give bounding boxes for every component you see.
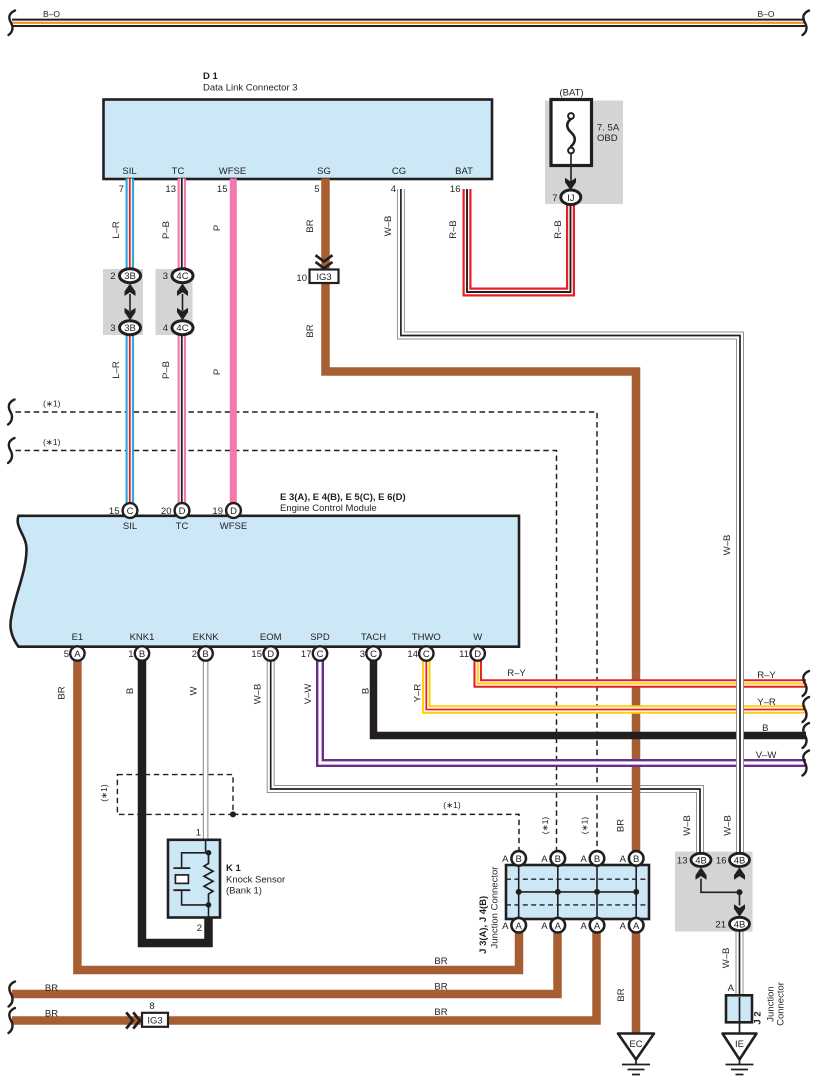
svg-text:D 1: D 1 [203, 71, 219, 82]
wire EOM W-B from ECM to 4B pin 13 [271, 660, 700, 857]
fuse element bottom circle [568, 148, 574, 154]
wire L-R from D1 SIL to 3B pin 2 [126, 179, 135, 278]
svg-text:W: W [473, 632, 482, 643]
svg-text:IJ: IJ [567, 193, 575, 204]
wire L-R from 3B pin 3 to ECM SIL [126, 327, 135, 505]
svg-text:C: C [317, 649, 324, 660]
svg-text:Y–R: Y–R [757, 697, 776, 708]
svg-text:C: C [127, 506, 134, 517]
svg-text:A: A [580, 854, 587, 865]
connector IG3 box bottom chevron [126, 1012, 140, 1028]
junction dot knock bottom [206, 902, 212, 908]
svg-text:A: A [620, 854, 627, 865]
junction 4B arrow up pin 16 [734, 867, 745, 880]
junction 4B arrow down pin 21 [734, 904, 745, 917]
svg-text:4B: 4B [695, 855, 707, 866]
svg-text:SG: SG [317, 166, 331, 177]
svg-text:(BAT): (BAT) [559, 88, 583, 99]
svg-text:20: 20 [161, 506, 172, 517]
svg-text:C: C [370, 649, 377, 660]
svg-text:BR: BR [434, 982, 447, 993]
svg-text:W: W [188, 686, 199, 695]
junction J3 inner dashed line upper [506, 878, 649, 880]
svg-text:7: 7 [552, 193, 557, 204]
svg-text:R–Y: R–Y [757, 670, 776, 681]
wire dashed (*1) line 2 [16, 451, 557, 854]
svg-text:13: 13 [677, 856, 688, 867]
wire continuation squiggle top-right [803, 11, 810, 36]
svg-text:E1: E1 [72, 632, 84, 643]
svg-text:4: 4 [391, 184, 396, 195]
junction 3B arrow up [125, 284, 136, 297]
svg-text:P: P [212, 369, 223, 375]
connector IG3 box on SG wire [310, 270, 339, 284]
junction 4C arrow up [177, 284, 188, 297]
junction J3 internal bus line [519, 891, 637, 893]
ECM top pin circle C SIL [123, 503, 138, 518]
connector J3 pin A3 circle [590, 918, 605, 933]
svg-text:10: 10 [296, 273, 307, 284]
svg-text:BR: BR [616, 988, 627, 1001]
svg-text:(Bank 1): (Bank 1) [226, 886, 262, 897]
svg-text:B: B [555, 854, 561, 865]
svg-text:B: B [516, 854, 522, 865]
capacitor element box [175, 875, 188, 884]
svg-text:J 3(A), J 4(B): J 3(A), J 4(B) [478, 896, 489, 954]
fuse 7.5A OBD box [551, 100, 592, 166]
svg-text:OBD: OBD [597, 133, 618, 144]
svg-text:P–B: P–B [161, 221, 172, 239]
svg-text:B: B [139, 649, 145, 660]
svg-text:A: A [633, 921, 640, 932]
svg-text:A: A [74, 649, 81, 660]
svg-text:E 3(A), E 4(B), E 5(C), E 6(D): E 3(A), E 4(B), E 5(C), E 6(D) [280, 492, 406, 503]
junction dot 4 [633, 889, 639, 895]
connector 4C oval pin 4 [172, 321, 193, 335]
wire BR from IG3 down right to J4 pin B4 [326, 282, 637, 856]
svg-text:3: 3 [360, 649, 365, 660]
wire continuation squiggle R-Y [803, 671, 810, 696]
svg-text:WFSE: WFSE [219, 166, 246, 177]
fuse block shading [545, 101, 623, 205]
svg-text:D: D [179, 506, 186, 517]
svg-text:13: 13 [165, 184, 176, 195]
svg-text:15: 15 [217, 184, 228, 195]
svg-text:(∗1): (∗1) [580, 817, 590, 835]
svg-text:WFSE: WFSE [220, 521, 247, 532]
svg-text:(∗1): (∗1) [99, 784, 109, 802]
svg-text:2: 2 [197, 923, 202, 934]
svg-text:SPD: SPD [310, 632, 330, 643]
svg-text:EKNK: EKNK [193, 632, 220, 643]
connector IJ oval [561, 190, 581, 205]
svg-text:17: 17 [301, 649, 312, 660]
svg-text:16: 16 [450, 184, 461, 195]
junction J3 internal vertical 3 [596, 860, 598, 925]
junction dot 1 [516, 889, 522, 895]
wire P-B from D1 TC to 4C pin 3 [178, 179, 187, 278]
svg-text:Connector: Connector [776, 982, 787, 1026]
wire through J2 to IE ground [739, 997, 741, 1034]
wire BR from D1 SG to IG3 [321, 179, 330, 272]
wire continuation squiggle dashed 2 [8, 438, 15, 463]
ECM top pin circle D WFSE [226, 503, 241, 518]
svg-text:B: B [125, 688, 136, 694]
junction J3 internal vertical 4 [635, 860, 637, 925]
svg-text:A: A [541, 921, 548, 932]
svg-text:8: 8 [149, 1001, 154, 1012]
svg-text:L–R: L–R [111, 221, 122, 239]
svg-text:V–W: V–W [303, 684, 314, 705]
svg-text:W–B: W–B [682, 815, 693, 836]
junction block shading 4C [156, 269, 193, 335]
svg-text:BR: BR [305, 324, 316, 337]
junction block shading 3B [103, 269, 143, 335]
ECM bottom pin circle A E1 [70, 646, 84, 660]
capacitor element plates [173, 868, 190, 890]
wire P from D1 WFSE to ECM WFSE [230, 179, 237, 505]
junction dot 4B [737, 889, 743, 895]
svg-text:Data Link Connector 3: Data Link Connector 3 [203, 83, 298, 94]
connector J3 pin A1 circle [511, 918, 526, 933]
wire B-O top harness [12, 19, 805, 27]
ECM bottom pin circle C SPD [313, 646, 327, 660]
ECM bottom pin circle B KNK1 [135, 646, 149, 660]
svg-text:V–W: V–W [756, 750, 777, 761]
junction 4C link line [182, 294, 184, 311]
svg-text:4B: 4B [734, 919, 746, 930]
svg-text:A: A [594, 921, 601, 932]
wire W from ECM EKNK to knock sensor pin 1 [203, 660, 209, 843]
connector IG3 box bottom [142, 1013, 168, 1027]
junction 3B link line [129, 294, 131, 311]
svg-text:16: 16 [716, 856, 727, 867]
ECM bottom pin circle C TACH [366, 646, 380, 660]
wire continuation squiggle Y-R [803, 697, 810, 722]
connector D1 Data Link Connector 3 box [104, 100, 493, 180]
wire dashed shield box around knock sensor wires [117, 775, 233, 815]
connector 3B oval pin 3 [120, 321, 141, 335]
svg-text:A: A [728, 983, 735, 994]
ground IE stem and hatches [726, 1060, 754, 1075]
connector J3 pin A4 circle [629, 918, 644, 933]
svg-text:CG: CG [392, 166, 406, 177]
junction IJ arrow down [565, 178, 576, 191]
wire BR from J3 pin A4 to EC ground [632, 924, 641, 1035]
connector 4C oval pin 3 [172, 269, 193, 283]
wire W-B from D1 CG to 4B pin 16 [401, 189, 740, 856]
knock sensor internal wires [182, 841, 209, 917]
svg-text:W–B: W–B [723, 815, 734, 836]
svg-text:Junction Connector: Junction Connector [490, 867, 501, 949]
wire BR harness 3 through IG3 to J3 pin A3 [12, 930, 597, 1021]
svg-text:B–O: B–O [43, 9, 60, 19]
connector 4B oval pin 13 [691, 853, 711, 866]
junction block shading 4B [675, 852, 753, 932]
svg-text:IG3: IG3 [316, 272, 331, 283]
svg-text:15: 15 [109, 506, 120, 517]
svg-text:B: B [633, 854, 639, 865]
svg-text:B–O: B–O [757, 9, 774, 19]
junction J3 internal vertical 1 [518, 860, 520, 925]
svg-text:TC: TC [176, 521, 189, 532]
svg-text:SIL: SIL [123, 521, 137, 532]
wire continuation squiggle V-W [803, 751, 810, 776]
svg-text:B: B [762, 723, 768, 734]
junction J3 internal vertical 2 [557, 860, 559, 925]
wire R-Y from ECM W to right harness [478, 660, 806, 684]
svg-text:4B: 4B [734, 855, 746, 866]
svg-text:IE: IE [735, 1039, 744, 1050]
connector 3B oval pin 2 [120, 269, 141, 283]
svg-text:(∗1): (∗1) [443, 800, 461, 810]
ECM bottom pin circle B EKNK [198, 646, 212, 660]
svg-text:4C: 4C [176, 271, 188, 282]
svg-text:W–B: W–B [253, 684, 264, 705]
wire continuation squiggle top-left [9, 11, 16, 36]
svg-text:J 2: J 2 [753, 1011, 764, 1024]
ECM top pin circle D TC [175, 503, 190, 518]
svg-text:3B: 3B [124, 271, 136, 282]
svg-text:5: 5 [314, 184, 319, 195]
wire continuation squiggle dashed 1 [8, 400, 15, 425]
ground EC stem and hatches [622, 1060, 650, 1075]
svg-text:2: 2 [110, 271, 115, 282]
svg-text:B: B [202, 649, 208, 660]
svg-text:7: 7 [119, 184, 124, 195]
fuse element top circle [568, 113, 574, 119]
svg-text:D: D [230, 506, 237, 517]
ECM bottom pin circle D W [471, 646, 485, 660]
wire Y-R from ECM THWO to right harness [426, 660, 806, 710]
wire B from ECM TACH to right harness [374, 660, 807, 736]
svg-text:D: D [267, 649, 274, 660]
node junction dot on shield line [230, 811, 236, 817]
connector J3 pin A2 circle [551, 918, 566, 933]
ground EC triangle [618, 1034, 654, 1060]
svg-text:1: 1 [196, 828, 201, 839]
svg-text:(∗1): (∗1) [43, 437, 61, 447]
ground IE triangle [723, 1034, 757, 1060]
svg-text:3B: 3B [124, 323, 136, 334]
svg-text:EOM: EOM [260, 632, 282, 643]
connector 4B oval pin 21 [730, 917, 750, 930]
svg-text:3: 3 [163, 271, 168, 282]
connector J4 pin B3 circle [590, 851, 605, 866]
junction 3B arrow down [125, 308, 136, 321]
connector J4 pin B4 circle [629, 851, 644, 866]
knock sensor K1 box [168, 840, 220, 918]
svg-text:P: P [212, 225, 223, 231]
svg-text:IG3: IG3 [147, 1016, 162, 1027]
svg-text:BR: BR [57, 686, 68, 699]
svg-text:15: 15 [251, 649, 262, 660]
resistor element zigzag [204, 853, 213, 905]
svg-text:W–B: W–B [383, 216, 394, 237]
connector IG3 on SG wire chevron [316, 255, 333, 268]
connector J4 pin B1 circle [511, 851, 526, 866]
wire continuation squiggle BR3 [9, 1008, 16, 1033]
svg-text:7. 5A: 7. 5A [597, 123, 620, 134]
svg-text:1: 1 [128, 649, 133, 660]
wire BR from ECM E1 down to J3 pin A1 [77, 660, 519, 971]
svg-text:3: 3 [110, 323, 115, 334]
junction connector J3 J4 box [506, 865, 649, 919]
wire R-B from D1 BAT to IJ [467, 189, 571, 292]
svg-text:BAT: BAT [455, 166, 473, 177]
svg-text:W–B: W–B [721, 948, 732, 969]
svg-text:A: A [620, 921, 627, 932]
svg-text:A: A [580, 921, 587, 932]
wire V-W from ECM SPD to right harness [320, 660, 806, 764]
svg-text:B: B [360, 688, 371, 694]
svg-text:BR: BR [616, 819, 627, 832]
svg-text:BR: BR [434, 1007, 447, 1018]
wire W-B from 4B pin 21 to J2 [736, 929, 744, 997]
junction 4B link lines [701, 879, 740, 906]
svg-text:SIL: SIL [122, 166, 136, 177]
svg-text:A: A [555, 921, 562, 932]
junction 4B arrow up pin 13 [696, 867, 707, 880]
svg-text:EC: EC [629, 1039, 642, 1050]
svg-text:19: 19 [212, 506, 223, 517]
svg-text:B: B [594, 854, 600, 865]
svg-text:2: 2 [192, 649, 197, 660]
wire B from ECM KNK1 loop to knock sensor pin 2 [142, 660, 209, 944]
connector J4 pin B2 circle [551, 851, 566, 866]
wire dashed shield drain line [233, 814, 519, 853]
svg-text:Engine Control Module: Engine Control Module [280, 503, 377, 514]
svg-text:BR: BR [45, 1009, 58, 1020]
svg-text:D: D [474, 649, 481, 660]
svg-text:A: A [541, 854, 548, 865]
wire dashed (*1) line 1 [16, 412, 598, 853]
svg-text:THWO: THWO [412, 632, 441, 643]
junction 4C arrow down [177, 308, 188, 321]
svg-text:5: 5 [64, 649, 69, 660]
svg-text:C: C [423, 649, 430, 660]
connector J2 box [726, 995, 752, 1022]
svg-text:11: 11 [459, 649, 469, 660]
wire P-B from 4C pin 4 to ECM TC [178, 327, 187, 505]
svg-text:A: A [502, 921, 509, 932]
svg-text:BR: BR [434, 956, 447, 967]
svg-text:TACH: TACH [361, 632, 386, 643]
junction J3 inner dashed line lower [506, 904, 649, 906]
svg-text:BR: BR [45, 983, 58, 994]
junction dot 3 [594, 889, 600, 895]
svg-text:(∗1): (∗1) [540, 817, 550, 835]
svg-text:A: A [502, 854, 509, 865]
junction dot 2 [555, 889, 561, 895]
svg-text:21: 21 [715, 920, 726, 931]
svg-text:4C: 4C [176, 323, 188, 334]
svg-text:Y–R: Y–R [413, 684, 424, 703]
svg-text:4: 4 [163, 323, 168, 334]
svg-text:R–B: R–B [448, 220, 459, 238]
svg-text:K 1: K 1 [226, 863, 242, 874]
svg-text:P–B: P–B [161, 361, 172, 379]
svg-text:R–B: R–B [553, 220, 564, 238]
wire BR harness 2 to J3 pin A2 [12, 930, 558, 994]
junction dot knock top [206, 850, 212, 856]
ECM bottom pin circle C THWO [419, 646, 433, 660]
wire continuation squiggle B [803, 723, 810, 748]
svg-text:L–R: L–R [111, 361, 122, 379]
fuse to IJ link line [570, 154, 572, 183]
ECM module box E3 E4 E5 E6 [10, 516, 519, 647]
connector 4B oval pin 16 [730, 853, 750, 866]
ECM bottom pin circle D EOM [264, 646, 278, 660]
svg-text:14: 14 [407, 649, 418, 660]
svg-text:(∗1): (∗1) [43, 399, 61, 409]
svg-text:KNK1: KNK1 [130, 632, 155, 643]
svg-text:A: A [516, 921, 523, 932]
svg-text:Knock Sensor: Knock Sensor [226, 875, 285, 886]
svg-text:TC: TC [172, 166, 185, 177]
fuse element curve [567, 119, 575, 147]
svg-text:W–B: W–B [722, 535, 733, 556]
svg-text:R–Y: R–Y [507, 668, 526, 679]
wire continuation squiggle BR2 [9, 982, 16, 1007]
svg-text:BR: BR [305, 219, 316, 232]
